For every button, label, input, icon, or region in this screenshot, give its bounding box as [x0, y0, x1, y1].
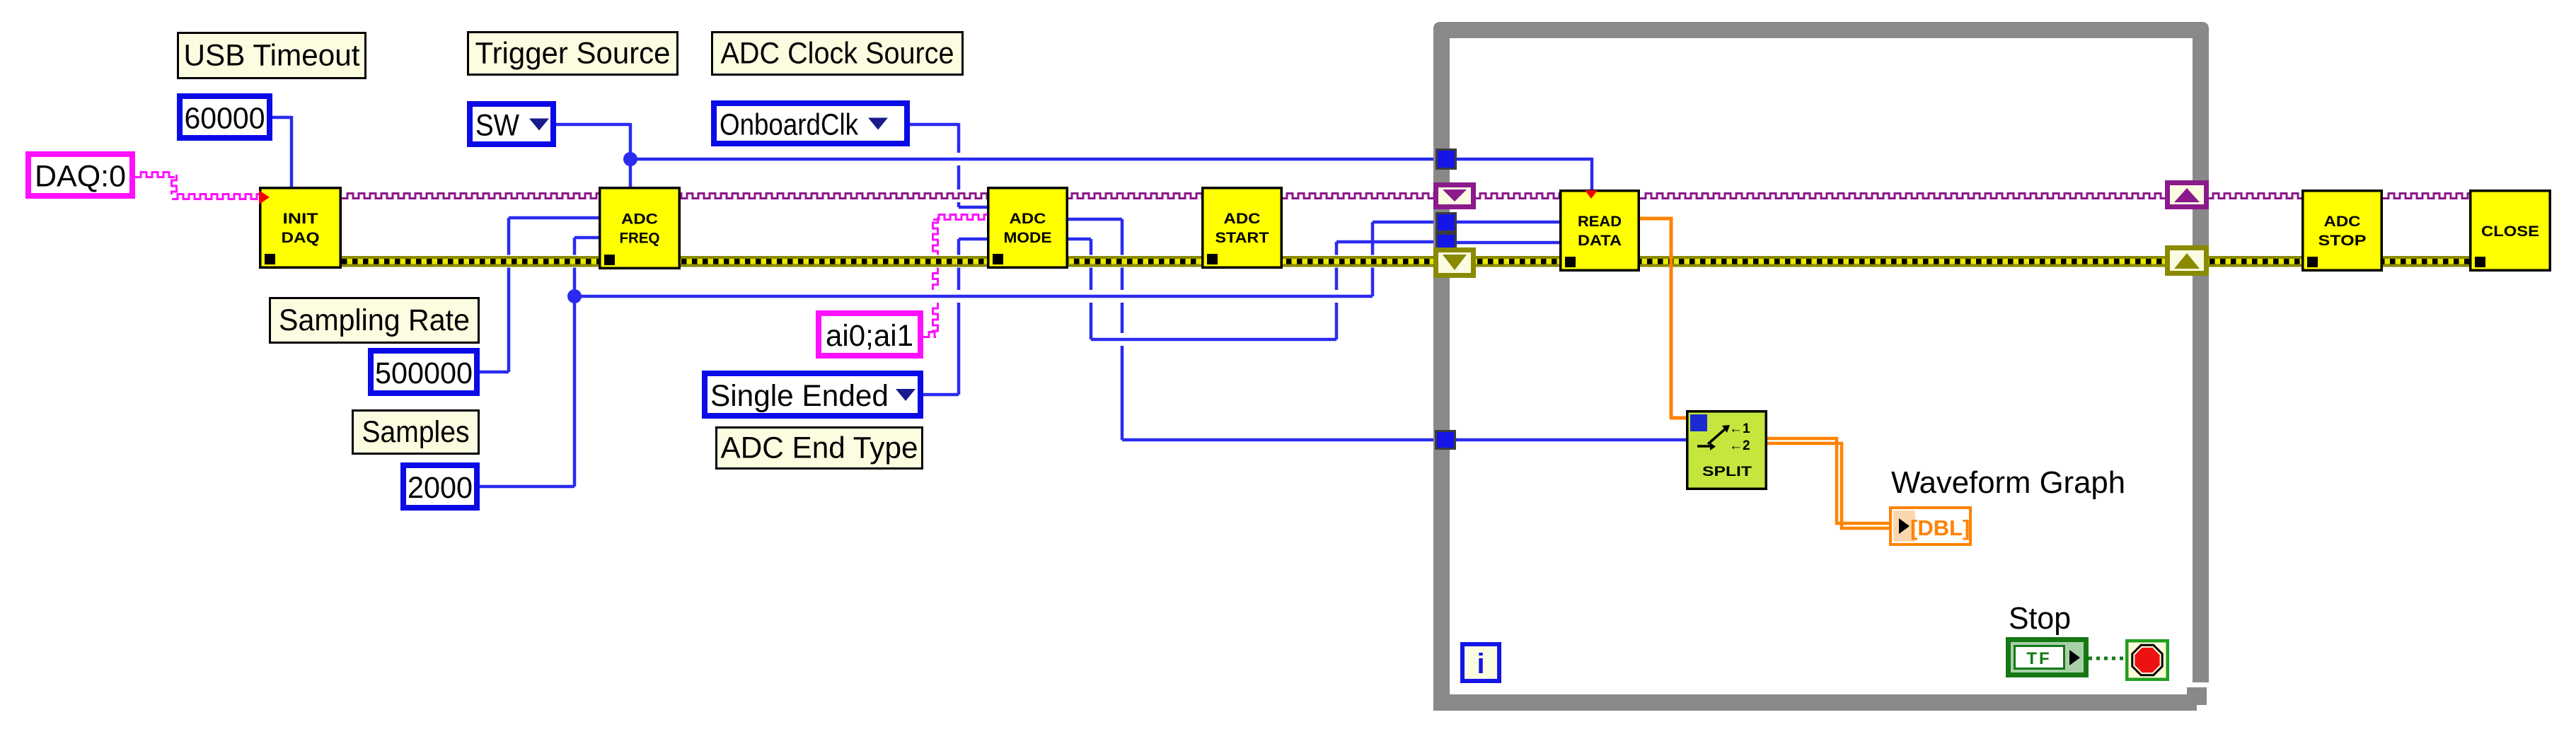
svg-text:ADC: ADC: [621, 211, 658, 228]
svg-text:i: i: [1477, 648, 1484, 680]
svg-text:OnboardClk: OnboardClk: [720, 108, 858, 142]
svg-text:ADC End Type: ADC End Type: [721, 431, 918, 465]
svg-text:DAQ:0: DAQ:0: [35, 160, 126, 194]
svg-text:MODE: MODE: [1004, 230, 1052, 246]
svg-text:SPLIT: SPLIT: [1702, 465, 1752, 479]
svg-text:Sampling Rate: Sampling Rate: [279, 303, 470, 337]
svg-text:60000: 60000: [185, 102, 265, 136]
svg-text:SW: SW: [475, 109, 519, 143]
svg-text:FREQ: FREQ: [620, 231, 660, 247]
svg-text:READ: READ: [1578, 214, 1622, 230]
svg-text:INIT: INIT: [283, 211, 318, 227]
svg-text:ADC: ADC: [2324, 214, 2361, 230]
svg-text:STOP: STOP: [2318, 233, 2367, 249]
svg-text:ADC Clock Source: ADC Clock Source: [721, 37, 954, 71]
svg-text:ai0;ai1: ai0;ai1: [826, 319, 913, 353]
svg-text:[DBL]: [DBL]: [1910, 515, 1970, 540]
svg-text:DAQ: DAQ: [282, 230, 320, 246]
svg-text:CLOSE: CLOSE: [2481, 223, 2539, 240]
svg-text:←1: ←1: [1729, 421, 1750, 436]
svg-text:2000: 2000: [408, 471, 473, 505]
svg-text:TF: TF: [2026, 649, 2051, 668]
svg-text:ADC: ADC: [1010, 211, 1046, 227]
svg-text:500000: 500000: [375, 356, 473, 390]
svg-text:Samples: Samples: [362, 415, 470, 449]
svg-text:←2: ←2: [1729, 438, 1750, 453]
svg-text:ADC: ADC: [1224, 211, 1261, 227]
svg-text:Trigger Source: Trigger Source: [475, 37, 671, 71]
svg-text:USB Timeout: USB Timeout: [184, 39, 360, 73]
svg-text:DATA: DATA: [1578, 233, 1622, 249]
svg-text:START: START: [1215, 230, 1269, 246]
svg-text:Waveform Graph: Waveform Graph: [1891, 465, 2125, 500]
svg-text:Single Ended: Single Ended: [710, 379, 889, 413]
svg-text:Stop: Stop: [2009, 601, 2071, 636]
